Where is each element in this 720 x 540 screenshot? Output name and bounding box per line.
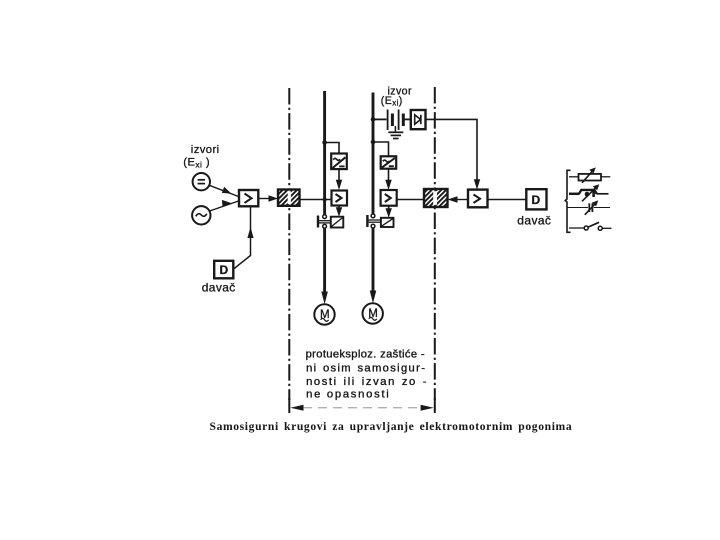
svg-text:protueksploz. zaštiće -: protueksploz. zaštiće -	[306, 349, 425, 361]
svg-text:M: M	[368, 308, 378, 320]
svg-text:davač: davač	[517, 214, 551, 228]
svg-text:M: M	[320, 309, 330, 321]
svg-text:davač: davač	[202, 281, 236, 295]
svg-text:D: D	[532, 193, 541, 207]
svg-text:ni osim samosigur-: ni osim samosigur-	[306, 363, 426, 375]
svg-text:izvori: izvori	[191, 144, 220, 156]
svg-text:Samosigurni krugovi za upravlj: Samosigurni krugovi za upravljanje elekt…	[210, 420, 573, 433]
svg-text:D: D	[220, 263, 229, 277]
svg-text:ne opasnosti: ne opasnosti	[306, 389, 390, 401]
svg-text:(Exi): (Exi)	[381, 95, 403, 108]
svg-text:(Exi ): (Exi )	[183, 157, 210, 170]
svg-text:nosti ili izvan zo -: nosti ili izvan zo -	[306, 376, 428, 388]
